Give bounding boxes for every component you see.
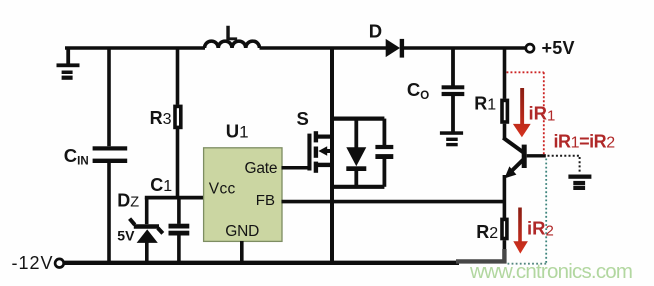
wire top rail right [404, 46, 526, 50]
terminal +5V [526, 44, 534, 52]
wire bottom rail right (faded under watermark) [456, 249, 504, 261]
wire snubber bottom rail [332, 185, 384, 189]
annotation teal dotted box [505, 159, 546, 264]
svg-text:R2: R2 [476, 222, 498, 242]
capacitor CIN [93, 48, 128, 263]
svg-text:S: S [297, 108, 309, 129]
wire switch node vertical [330, 48, 334, 262]
svg-text:-12V: -12V [12, 253, 53, 273]
terminal -12V [55, 259, 64, 268]
wire U1 GND [240, 241, 244, 263]
ground GND-out (under CO) [440, 131, 463, 146]
capacitor snubber [375, 119, 393, 187]
resistor R1 [502, 48, 507, 122]
wire snubber top rail [332, 116, 384, 120]
svg-text:Vcc: Vcc [209, 181, 236, 198]
annotation red dotted box [507, 72, 544, 155]
diode D [386, 39, 404, 58]
svg-text:C1: C1 [150, 175, 172, 195]
wire top rail left [65, 46, 205, 50]
svg-text:+5V: +5V [542, 38, 575, 58]
diode body (freewheel) [346, 119, 366, 187]
capacitor CO [442, 48, 465, 132]
wire FB net [282, 200, 505, 204]
svg-text:U1: U1 [226, 121, 249, 142]
wire emitter to FB node [503, 175, 507, 218]
wire bottom rail [65, 261, 460, 265]
svg-text:D: D [369, 21, 382, 42]
wire top rail middle [260, 46, 387, 50]
svg-text:Gate: Gate [245, 160, 278, 177]
capacitor C1 [169, 198, 190, 263]
svg-text:CO: CO [407, 79, 429, 102]
svg-text:iR1=iR2: iR1=iR2 [554, 131, 616, 151]
svg-text:iR1: iR1 [529, 103, 556, 125]
svg-text:L: L [225, 23, 237, 45]
wire gate [282, 166, 310, 170]
svg-text:R3: R3 [150, 108, 172, 128]
svg-text:FB: FB [256, 192, 275, 209]
annotation current arrow iR2 [513, 208, 528, 254]
transistor S (MOSFET) [307, 131, 332, 173]
annotation current arrow iR1 [513, 88, 531, 137]
transistor Q1 (BJT) [503, 124, 546, 179]
resistor R2 [502, 219, 507, 251]
svg-text:iR2: iR2 [527, 217, 554, 239]
svg-text:5V: 5V [117, 228, 135, 244]
svg-text:CIN: CIN [64, 145, 89, 168]
ground GND-in (top left) [57, 48, 80, 80]
svg-text:DZ: DZ [117, 190, 139, 210]
svg-text:www.cntronics.com: www.cntronics.com [469, 260, 633, 283]
svg-text:GND: GND [225, 223, 259, 240]
resistor R3 [175, 48, 181, 198]
annotation dotted link base to ground [548, 156, 580, 173]
wire Vcc [145, 196, 204, 200]
op-amp U1 (controller IC) [204, 148, 282, 242]
zener DZ [130, 198, 163, 263]
ground (annotation, base reference) [568, 175, 591, 191]
svg-text:R1: R1 [474, 93, 496, 113]
inductor L [205, 41, 260, 48]
